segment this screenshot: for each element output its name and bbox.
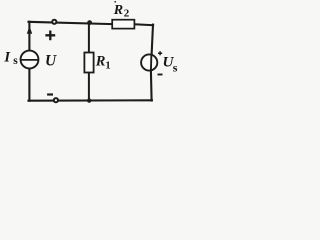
label R1: [95, 54, 111, 72]
svg-text:s: s: [173, 60, 178, 74]
wire bottom: [29, 99, 152, 101]
current arrow on left wire: [27, 26, 32, 34]
svg-text:R: R: [113, 3, 123, 18]
svg-text:R: R: [95, 54, 106, 70]
wire middle branch lower: [88, 72, 90, 100]
speck above R2 (scan artifact): [114, 1, 116, 3]
node bottom terminal: [54, 98, 58, 102]
label Is: [3, 50, 18, 68]
svg-text:1: 1: [105, 61, 110, 72]
voltage source Us circle: [141, 54, 157, 71]
svg-text:2: 2: [124, 8, 130, 20]
minus sign (U polarity): [47, 93, 53, 95]
wire left vertical upper: [28, 22, 30, 51]
svg-text:s: s: [13, 55, 18, 67]
junction bottom: [87, 98, 91, 102]
wire top (corner to R2): [29, 22, 112, 24]
wire left vertical lower: [28, 68, 30, 101]
resistor R1: [84, 53, 93, 73]
node top terminal: [52, 20, 56, 24]
svg-text:U: U: [45, 52, 57, 69]
wire right vertical lower: [150, 70, 153, 100]
wire middle branch upper: [88, 23, 90, 52]
plus sign (Us polarity): [158, 51, 162, 55]
plus sign (U polarity): [45, 31, 55, 41]
resistor R2: [112, 20, 134, 29]
junction top: [87, 20, 92, 25]
wire right vertical upper: [152, 25, 153, 55]
label R2: [113, 3, 130, 20]
minus sign (Us polarity): [158, 74, 163, 76]
current source Is circle: [21, 51, 39, 69]
label Us: [163, 54, 178, 75]
wire top (R2 to right corner): [135, 23, 153, 26]
